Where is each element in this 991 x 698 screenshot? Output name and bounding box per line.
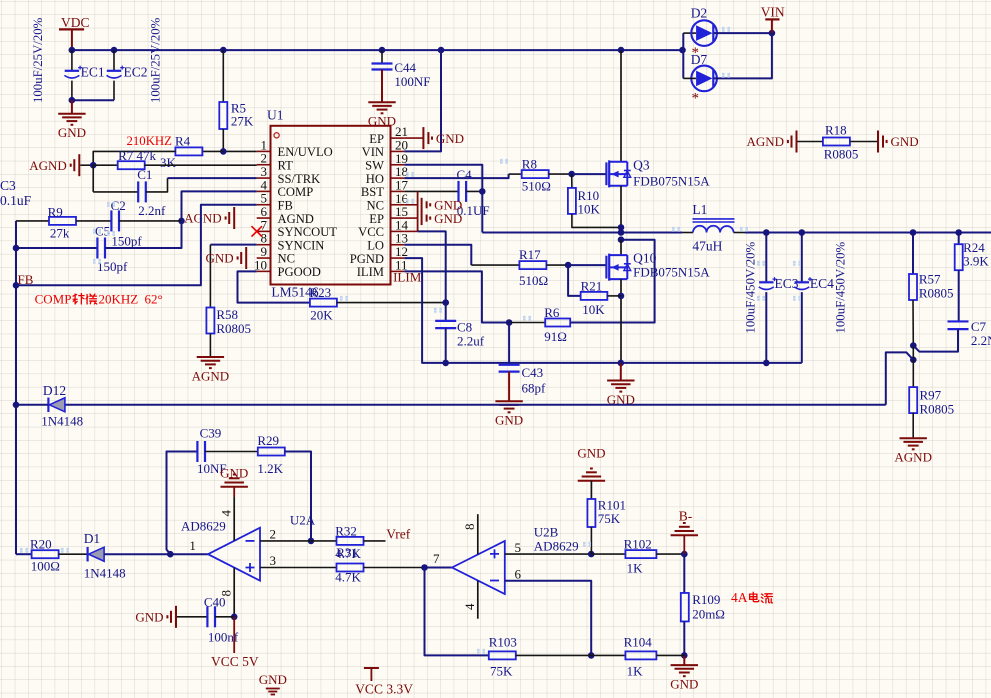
wire R21 right lead (607, 295, 621, 297)
svg-text:U2B: U2B (534, 525, 559, 540)
inductor L1 (693, 219, 735, 233)
svg-text:1: 1 (189, 538, 196, 553)
U2A pin4 stem (233, 487, 235, 497)
junction SW rail (618, 229, 625, 236)
wire C7 to node (913, 329, 958, 351)
wire pin4 to comp node (182, 191, 257, 221)
svg-text:LO: LO (367, 238, 384, 252)
svg-text:R4: R4 (175, 134, 191, 149)
svg-text:R97: R97 (920, 388, 942, 403)
capacitor C2 (110, 210, 112, 231)
resistor R7 (118, 161, 145, 169)
ground GND at pin9 (206, 247, 247, 269)
diode D2 (691, 20, 717, 46)
power VDC (59, 29, 84, 50)
svg-text:EC2: EC2 (124, 65, 148, 80)
wire pin1 to R4 (223, 150, 256, 152)
svg-text:6: 6 (515, 567, 522, 582)
capacitor C40 (206, 606, 208, 627)
svg-text:510Ω: 510Ω (522, 179, 551, 194)
wire R17 to Q10 gate node (547, 264, 569, 266)
junction R5 top (220, 47, 227, 54)
svg-text:75K: 75K (598, 511, 621, 526)
wire EC3 top lead (765, 233, 767, 283)
svg-text:D1: D1 (84, 531, 101, 546)
wire Q3 drain vertical (620, 50, 622, 162)
svg-text:3K: 3K (160, 155, 177, 170)
svg-text:27K: 27K (231, 114, 254, 129)
svg-text:FDB075N15A: FDB075N15A (633, 265, 710, 280)
pin tie bar 16-15-14 (417, 192, 419, 232)
wire D7 anode lead (683, 77, 696, 79)
svg-text:Q10: Q10 (633, 251, 656, 266)
ground GND at pin16 (404, 204, 417, 206)
svg-text:R9: R9 (48, 205, 63, 220)
wire EC4 bottom lead (801, 292, 803, 363)
resistor R18 (823, 138, 850, 146)
svg-text:R6: R6 (544, 305, 560, 320)
capacitor EC3 (759, 277, 777, 289)
svg-text:GND: GND (436, 131, 464, 146)
svg-text:20KHZ: 20KHZ (99, 292, 139, 307)
svg-text:R103: R103 (489, 635, 517, 650)
U1 pin 10 PGOOD (254, 257, 321, 279)
svg-text:AGND: AGND (184, 211, 222, 226)
wire FB rail vertical (15, 221, 17, 554)
svg-text:ILIM: ILIM (393, 270, 422, 285)
junction C44 top (379, 47, 386, 54)
svg-text:3.9K: 3.9K (963, 254, 989, 269)
wire R18 to GND (850, 141, 877, 143)
svg-text:SW: SW (365, 158, 384, 172)
compile marks (107, 203, 115, 206)
wire D2 anode lead (683, 32, 696, 34)
wire R32 to Vref (364, 540, 386, 542)
svg-text:3: 3 (270, 553, 277, 568)
wire R4 right lead (202, 150, 223, 152)
junction R104 node (681, 652, 688, 659)
wire SW rail (482, 232, 682, 234)
svg-text:VCC: VCC (358, 225, 384, 239)
U1 pin 3 SS/TRK (257, 164, 321, 186)
resistor R4 (175, 147, 202, 155)
junction C43 branch (506, 319, 513, 326)
resistor R20 (32, 550, 59, 558)
svg-text:R57: R57 (919, 272, 941, 287)
ground GND top right (878, 131, 919, 153)
wire FB sense line right (886, 352, 914, 404)
wire R58 to AGND (209, 334, 211, 358)
capacitor C1 (137, 181, 139, 202)
junction C8 ground rail (442, 360, 449, 367)
no-ERC cross pin 7 (252, 226, 263, 236)
svg-text:AGND: AGND (894, 450, 932, 465)
capacitor C43 (508, 323, 510, 365)
svg-text:PGND: PGND (350, 252, 384, 266)
svg-text:FB: FB (278, 198, 293, 212)
U1 pin 4 COMP (257, 177, 314, 199)
svg-text:100uF/450V/20%: 100uF/450V/20% (744, 241, 758, 333)
svg-text:FDB075N15A: FDB075N15A (633, 174, 710, 189)
capacitor EC1 (64, 66, 82, 78)
wire R4 left to corner (93, 151, 175, 165)
resistor R8 (522, 170, 549, 178)
wire R10 bottom (572, 214, 621, 227)
resistor R109 (681, 593, 689, 622)
svg-text:C8: C8 (457, 320, 472, 335)
wire EC2 bottom lead (113, 81, 115, 101)
svg-text:2.2nf: 2.2nf (138, 203, 166, 218)
power VIN (765, 19, 779, 33)
ground GND below C43 (508, 372, 510, 402)
svg-text:GND: GND (577, 446, 605, 461)
wire EC2 top lead (113, 50, 115, 71)
ground GND at pin21 (404, 137, 423, 139)
power VCC 3.3V (364, 668, 379, 681)
U2B pin4 stem (477, 581, 479, 619)
U1 pin 12 PGND (350, 244, 408, 266)
junction SW snubber (618, 236, 625, 243)
svg-text:R0805: R0805 (216, 321, 251, 336)
svg-text:VIN: VIN (362, 145, 384, 159)
ground GND at pin15 (404, 217, 417, 219)
junction B- node (681, 551, 688, 558)
wire junction to R7 (93, 164, 118, 166)
ground GND below C44 (381, 70, 383, 103)
ground AGND left (29, 154, 79, 176)
wire D1 to opamp output (104, 553, 208, 555)
wire Q10 drain vertical (620, 240, 622, 255)
wire pin12 PGND route (404, 258, 802, 363)
wire pin19 SW route (404, 165, 482, 233)
svg-text:150pf: 150pf (97, 259, 128, 274)
ground GND below R109 (683, 655, 685, 665)
wire pin14 VCC route (404, 230, 417, 232)
junction U2B output node (421, 564, 428, 571)
capacitor C8 (445, 303, 447, 321)
resistor R10 (571, 174, 573, 188)
wire D12 anode lead (16, 404, 48, 406)
svg-text:GND: GND (58, 125, 86, 140)
svg-text:91Ω: 91Ω (544, 329, 567, 344)
resistor R29 (258, 448, 285, 456)
svg-text:D12: D12 (43, 383, 66, 398)
wire R57 top lead (912, 233, 914, 275)
resistor R57 (909, 274, 917, 300)
wire VOUT rail (745, 232, 991, 234)
ground AGND at pin6 (184, 207, 234, 229)
wire LO to R17 (471, 264, 519, 266)
U1 pin 16 NC (367, 191, 409, 213)
wire pin5 FB route (16, 205, 257, 286)
wire pin2 to R32 (311, 540, 336, 542)
junction pin2 node (308, 538, 315, 545)
svg-text:1K: 1K (627, 664, 644, 679)
svg-text:GND: GND (135, 610, 163, 625)
svg-text:VCC 3.3V: VCC 3.3V (355, 682, 413, 697)
wire R102 to B- node (656, 553, 684, 555)
op IC U1 body (271, 126, 391, 285)
svg-text:8: 8 (462, 524, 477, 531)
svg-text:Vref: Vref (386, 527, 410, 542)
svg-text:EC3: EC3 (775, 276, 799, 291)
svg-text:1K: 1K (627, 561, 644, 576)
svg-text:R7 47k: R7 47k (118, 148, 156, 163)
svg-text:1N4148: 1N4148 (84, 566, 126, 581)
svg-text:HO: HO (366, 172, 384, 186)
wire R9 to C2 (76, 220, 111, 222)
junction COMP node (178, 218, 185, 225)
junction R103-R104 (588, 652, 595, 659)
wire Q10 source vertical (620, 279, 622, 363)
capacitor C7 (948, 320, 969, 322)
resistor R102 (625, 550, 656, 558)
svg-text:NC: NC (278, 252, 296, 266)
U2B pin8 stem (477, 514, 479, 554)
svg-text:NC: NC (367, 198, 385, 212)
wire R57 to R97 (912, 346, 914, 388)
junction R10-SW (618, 224, 625, 231)
svg-text:COMP: COMP (278, 185, 314, 199)
ground AGND below R58 (197, 356, 224, 358)
svg-text:27k: 27k (50, 226, 70, 241)
svg-text:EC1: EC1 (81, 65, 105, 80)
svg-text:Q3: Q3 (633, 158, 650, 173)
svg-text:4A: 4A (731, 590, 748, 605)
wire R101 bottom lead (590, 527, 592, 554)
wire R104 right lead (656, 654, 684, 656)
U1 pin 7 SYNCOUT (257, 217, 338, 239)
svg-text:BST: BST (361, 185, 384, 199)
wire C40 to pin8 node (215, 616, 234, 618)
U1 pin 15 EP (369, 204, 408, 226)
svg-text:100uF/25V/20%: 100uF/25V/20% (149, 17, 163, 103)
svg-text:R23: R23 (310, 285, 332, 300)
junction VIN pin20 (438, 47, 445, 54)
svg-text:R58: R58 (216, 307, 238, 322)
wire EC4 top lead (801, 233, 803, 283)
U1 pin 11 ILIM (357, 257, 408, 279)
svg-text:VIN: VIN (761, 5, 785, 20)
svg-text:5: 5 (515, 540, 522, 555)
wire R29 to pin2 (285, 452, 311, 541)
wire AGND node down (92, 165, 94, 192)
svg-text:COMP: COMP (35, 292, 72, 307)
svg-text:R21: R21 (581, 279, 603, 294)
wire R24 to C7 (958, 270, 960, 321)
wire Q10 gate lead (568, 264, 606, 266)
U1 pin 2 RT (257, 151, 293, 173)
svg-text:100uF/25V/20%: 100uF/25V/20% (31, 17, 45, 103)
wire pin13 LO route (404, 245, 471, 265)
svg-text:75K: 75K (490, 664, 513, 679)
junction VIN node (769, 30, 776, 37)
wire pin8 to R58 (210, 244, 256, 246)
wire C4 to SW vertical (466, 190, 482, 192)
junction EC1 bottom (69, 97, 76, 104)
feedback loop wire up (167, 452, 198, 555)
svg-text:150pf: 150pf (111, 234, 142, 249)
svg-text:*: * (692, 91, 700, 107)
wire pin20 to VDC rail (404, 50, 441, 151)
wire FB rail to R20 (16, 553, 32, 555)
svg-text:C44: C44 (394, 60, 416, 75)
svg-text:VCC 5V: VCC 5V (211, 654, 259, 669)
svg-text:C1: C1 (137, 167, 152, 182)
svg-text:GND: GND (670, 676, 698, 691)
junction FB branch (13, 282, 20, 289)
transistor Q10 (606, 254, 630, 281)
wire R9 left corner (16, 220, 49, 222)
wire Q3 gate lead (572, 173, 607, 175)
junction diode rail (679, 47, 686, 54)
wire R20 to D1 (58, 553, 87, 555)
svg-text:R20: R20 (30, 537, 52, 552)
junction VCC-C8 node (442, 299, 449, 306)
svg-text:GND: GND (434, 211, 462, 226)
junction C40 node (231, 614, 238, 621)
U1 pin 19 SW (365, 151, 408, 173)
junction VDC (69, 47, 76, 54)
svg-text:EC4: EC4 (810, 276, 834, 291)
wire R109 bottom lead (683, 622, 685, 656)
U1 pin 21 EP (369, 124, 408, 146)
svg-text:AD8629: AD8629 (181, 519, 226, 534)
junction ground rail Q10 (618, 360, 625, 367)
junction AGND node (90, 162, 97, 169)
capacitor EC2 (107, 66, 125, 78)
wire R5 top lead (222, 50, 224, 102)
junction R24 rail (955, 229, 962, 236)
svg-text:RT: RT (278, 158, 294, 172)
svg-text:AD8629: AD8629 (534, 539, 579, 554)
wire pin10 to R23 (238, 271, 311, 302)
wire diode branch vertical (682, 33, 684, 78)
wire EC bottom link (72, 99, 114, 101)
junction R21 right (618, 293, 625, 300)
svg-text:U1: U1 (267, 108, 284, 123)
svg-text:SYNCIN: SYNCIN (278, 238, 325, 252)
svg-text:62°: 62° (145, 292, 163, 307)
svg-text:EP: EP (369, 132, 384, 146)
svg-text:1N4148: 1N4148 (41, 414, 83, 429)
wire pin5 line (505, 553, 591, 555)
junction R5 bottom (220, 148, 227, 155)
svg-text:GND: GND (495, 413, 523, 428)
resistor R103 (489, 651, 516, 659)
U1 pin 18 HO (366, 164, 408, 186)
wire R57 bottom lead (912, 300, 914, 346)
wire B- node to R109 (683, 554, 685, 593)
wire pin2 line (260, 540, 311, 542)
wire C8 bottom (445, 328, 447, 363)
wire GND to C40 (177, 616, 208, 618)
U1 pin 8 SYNCIN (257, 231, 325, 253)
junction FB sense branch (910, 357, 917, 364)
svg-text:EN/UVLO: EN/UVLO (278, 145, 333, 159)
junction EC3 top (763, 229, 770, 236)
svg-text:68pf: 68pf (522, 381, 547, 396)
svg-text:2.2uf: 2.2uf (457, 334, 485, 349)
wire EC3 bottom lead (765, 292, 767, 363)
svg-text:R31: R31 (336, 545, 358, 560)
svg-text:10K: 10K (582, 302, 605, 317)
svg-text:C4: C4 (457, 167, 473, 182)
U1 pin 20 VIN (362, 137, 408, 159)
wire R8 to Q3 gate node (549, 173, 572, 175)
svg-text:EP: EP (369, 212, 384, 226)
resistor R32 (337, 537, 364, 545)
resistor R9 (49, 217, 76, 225)
wire node to R104 (591, 654, 625, 656)
diode D7 (691, 66, 717, 92)
svg-text:B-: B- (679, 509, 693, 524)
wire pin6 route (505, 581, 591, 656)
svg-text:R8: R8 (522, 157, 537, 172)
svg-text:R18: R18 (825, 123, 847, 138)
junction C7 branch (910, 342, 917, 349)
resistor R101 (587, 499, 595, 527)
wire R6 to SW node (570, 240, 654, 323)
U1 pin 9 NC (257, 244, 295, 266)
svg-text:AGND: AGND (746, 134, 784, 149)
svg-text:1.2K: 1.2K (257, 461, 283, 476)
svg-text:510Ω: 510Ω (519, 273, 548, 288)
transistor Q3 (606, 160, 630, 187)
svg-text:PGOOD: PGOOD (278, 265, 321, 279)
wire R5 bottom lead (222, 129, 224, 151)
wire AGND to R18 (798, 141, 823, 143)
junction EC4 top (799, 229, 806, 236)
junction C5 branch (13, 245, 20, 252)
U1 pin 5 FB (257, 191, 293, 213)
diode D1 (88, 547, 105, 562)
wire R103 to node (516, 654, 591, 656)
svg-text:20K: 20K (310, 308, 333, 323)
svg-text:C40: C40 (204, 595, 226, 610)
resistor R31 (337, 564, 364, 572)
capacitor C44 (372, 62, 393, 64)
wire R7 to pin2 (144, 164, 256, 166)
ground GND at C40 (135, 606, 176, 628)
pin 1 indicator (274, 133, 279, 138)
wire C5 line left (16, 247, 98, 249)
U2A pin8 stem (233, 568, 235, 617)
wire R24 top lead (958, 233, 960, 245)
svg-text:C3: C3 (0, 178, 16, 193)
U1 pin 14 VCC (358, 217, 408, 239)
svg-text:R109: R109 (692, 592, 720, 607)
junction EC2 top (111, 47, 118, 54)
svg-text:10K: 10K (578, 202, 601, 217)
junction Q3 gate (568, 171, 575, 178)
wire R21 left route (568, 265, 581, 296)
svg-text:7: 7 (433, 551, 440, 566)
wire R31 to node (364, 567, 425, 569)
U1 pin 1 EN/UVLO (257, 137, 333, 159)
wire to C1 (93, 191, 138, 193)
power VCC 5V (233, 617, 235, 653)
wire AGND to junction (80, 164, 93, 166)
svg-text:R0805: R0805 (824, 147, 859, 162)
svg-text:GND: GND (259, 672, 287, 687)
junction C4-SW (479, 188, 486, 195)
svg-text:D2: D2 (691, 6, 708, 21)
ground AGND top right (746, 131, 796, 153)
op-amp U2A (208, 528, 260, 581)
svg-text:R102: R102 (624, 537, 652, 552)
junction opamp output node (167, 551, 174, 558)
